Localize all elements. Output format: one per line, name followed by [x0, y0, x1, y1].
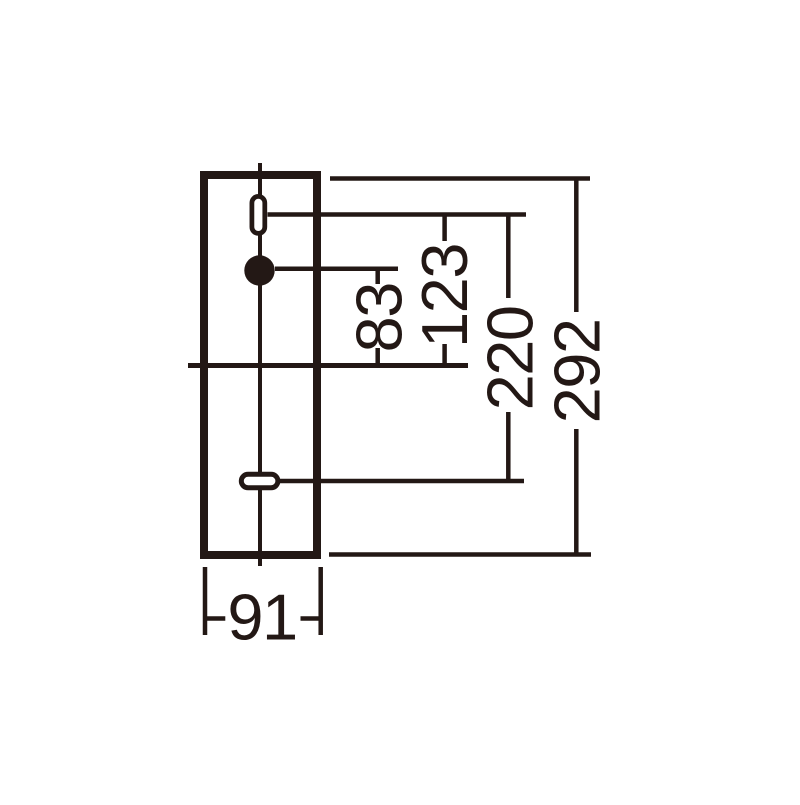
dim 83 vertical line upper segment — [375, 269, 380, 284]
dim 91 dimension line right segment — [301, 616, 322, 621]
svg-text:91: 91 — [227, 580, 296, 653]
top keyhole slot — [252, 196, 265, 233]
dim 220/123 top extension line from top slot — [268, 212, 527, 217]
dim 220 vertical line upper segment — [506, 215, 511, 299]
dim 292 vertical line lower segment — [574, 429, 579, 555]
dim 91 dimension line left segment — [203, 616, 225, 621]
svg-text:220: 220 — [474, 306, 547, 410]
fixture outline rectangle — [204, 175, 317, 555]
dim 91 right extension line — [318, 567, 323, 635]
svg-text:292: 292 — [541, 319, 614, 423]
dim 123 vertical line upper segment — [442, 215, 447, 242]
dim 292 bottom extension line — [329, 552, 591, 557]
dim 83 vertical line lower segment — [375, 348, 380, 366]
dim 123 vertical line lower segment — [442, 344, 447, 366]
dim 83 extension line from circle — [275, 267, 398, 272]
horizontal reference line — [188, 363, 468, 368]
dim 91 left extension line — [203, 567, 208, 635]
vertical centerline — [258, 163, 262, 566]
bottom slot extension line — [280, 479, 524, 484]
bottom slot — [241, 474, 278, 488]
dim 292 vertical line upper segment — [574, 179, 579, 313]
svg-text:83: 83 — [342, 283, 415, 352]
svg-text:123: 123 — [408, 244, 481, 348]
dim 292 top extension line — [330, 176, 590, 181]
dim 220 vertical line lower segment — [506, 412, 511, 481]
mounting hole filled circle — [244, 255, 274, 285]
